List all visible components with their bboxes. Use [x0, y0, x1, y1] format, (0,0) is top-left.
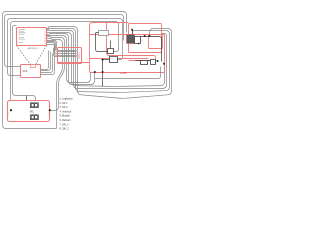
svg-text:2. OK 1: 2. OK 1	[60, 102, 69, 105]
board pin labels	[19, 30, 26, 43]
wire SNS pin 3	[41, 54, 53, 73]
junction dot B	[102, 71, 104, 73]
junction dot E	[149, 35, 151, 37]
MC left dot	[10, 109, 12, 111]
wire lcd pin 5	[54, 48, 77, 57]
wire bus 0	[47, 27, 172, 99]
wire box3 right	[141, 37, 162, 62]
wire bus 2	[47, 31, 167, 89]
dashed cone right	[36, 46, 47, 65]
wire hub bottom rail	[95, 67, 161, 79]
box U5	[151, 60, 156, 65]
wire box5 right	[157, 60, 158, 62]
box U6	[141, 61, 148, 65]
wire red mid	[90, 58, 149, 60]
junction dot C	[94, 71, 96, 73]
wire red from LCD	[58, 61, 90, 63]
board pin numbers	[45, 30, 46, 44]
board box	[17, 28, 47, 46]
wire SNS pin 2	[41, 52, 51, 71]
wire red top	[90, 23, 129, 35]
wire lcd pin 4	[47, 45, 77, 56]
junction dot G	[163, 63, 165, 65]
box U3	[135, 37, 141, 44]
wire box2 left	[103, 59, 110, 61]
wire red drop	[107, 23, 156, 60]
MC top connector	[30, 103, 38, 108]
wire MC bottom feed	[27, 96, 31, 118]
svg-text:5. Module: 5. Module	[60, 115, 71, 118]
box U2	[110, 57, 118, 63]
MC right dot	[49, 109, 51, 111]
svg-text:MC: MC	[30, 109, 34, 113]
wire comp top stub	[132, 30, 134, 35]
MC bottom connector	[30, 115, 38, 120]
junction dot H	[157, 60, 159, 62]
wire box5 left	[136, 60, 151, 62]
svg-text:3. OK 2: 3. OK 2	[60, 106, 69, 109]
wire bus 5	[47, 36, 91, 83]
dark component	[127, 35, 135, 44]
svg-text:HUB: HUB	[120, 71, 126, 75]
wire SNS pin 4	[41, 56, 55, 75]
wire bus 3	[47, 33, 165, 87]
svg-text:7. SKL 1: 7. SKL 1	[60, 123, 70, 126]
svg-text:1. Loghouse: 1. Loghouse	[60, 98, 74, 101]
svg-text:ARDUINO 1: ARDUINO 1	[28, 47, 40, 50]
junction dot A	[102, 59, 104, 61]
wire loop L2	[5, 15, 124, 67]
svg-text:LCD 1: LCD 1	[78, 52, 81, 59]
box HUB red outline	[90, 35, 165, 73]
wire box1 top	[110, 41, 112, 49]
wire loop L1	[3, 12, 127, 129]
box red C	[149, 35, 163, 49]
wire loop L3	[8, 19, 123, 76]
legend list	[60, 98, 74, 131]
wire lcd pin 1	[47, 41, 77, 51]
dashed cone left	[17, 46, 31, 65]
MC box	[8, 101, 50, 122]
wire red low	[129, 60, 156, 62]
svg-text:6. Refresh: 6. Refresh	[60, 119, 72, 122]
SNS box	[21, 65, 41, 78]
wire lcd pin 3	[47, 43, 77, 54]
box red B	[129, 24, 162, 53]
small gray box in HUB	[99, 31, 109, 36]
junction dot D	[144, 35, 146, 37]
svg-text:SNS: SNS	[22, 70, 27, 73]
wire loop L5 MC feed	[13, 26, 36, 103]
SNS notch	[31, 65, 36, 68]
wire loop L4	[11, 22, 119, 111]
wire bus 4	[47, 34, 95, 85]
wire riser dot2	[102, 60, 104, 87]
wire lcd pin 2	[47, 42, 77, 52]
svg-text:4. Interlock: 4. Interlock	[60, 110, 72, 113]
svg-text:8. SKL 2: 8. SKL 2	[60, 128, 70, 131]
wire bus 1	[47, 29, 170, 93]
wire to MC right	[47, 37, 65, 111]
wire SNS pin 1	[41, 51, 49, 70]
wire to bottom wrap	[47, 39, 63, 129]
junction dot F	[131, 29, 133, 31]
wire box1 left	[96, 33, 108, 52]
wire box3 below	[138, 43, 140, 45]
box U1	[108, 49, 114, 54]
LCD box	[58, 48, 82, 64]
